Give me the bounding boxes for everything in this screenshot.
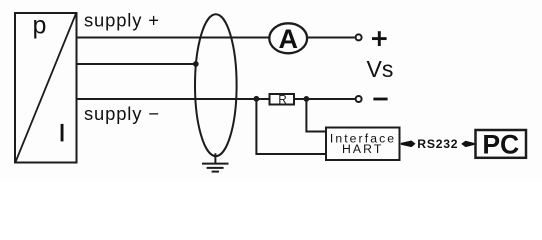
svg-text:PC: PC: [482, 130, 519, 160]
svg-text:p: p: [33, 12, 47, 40]
svg-text:supply −: supply −: [84, 103, 160, 124]
svg-text:HART: HART: [342, 142, 383, 156]
svg-text:supply +: supply +: [84, 9, 160, 30]
svg-text:Vs: Vs: [367, 56, 394, 82]
svg-text:R: R: [278, 94, 286, 106]
svg-text:A: A: [279, 24, 299, 54]
svg-text:RS232: RS232: [417, 137, 458, 151]
